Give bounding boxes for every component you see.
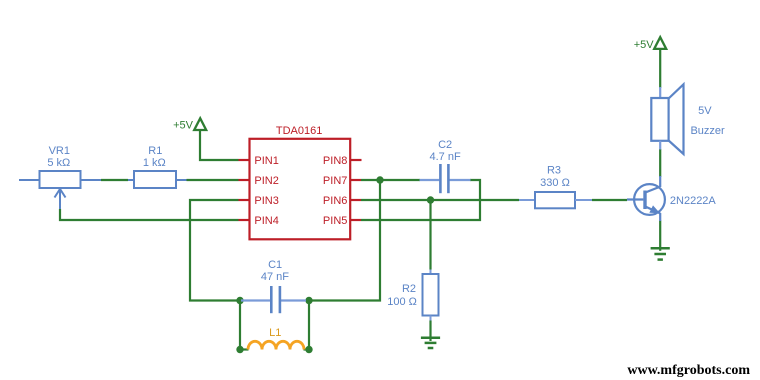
ground under R2 xyxy=(421,338,440,348)
svg-text:R3: R3 xyxy=(547,164,561,176)
svg-text:PIN2: PIN2 xyxy=(254,175,278,187)
svg-text:R2: R2 xyxy=(402,283,416,295)
svg-text:C2: C2 xyxy=(438,139,452,151)
wire C2 right down to PIN5 xyxy=(361,180,480,220)
wire +5V to PIN1 xyxy=(200,131,239,161)
svg-text:5 kΩ: 5 kΩ xyxy=(47,157,70,169)
svg-text:330 Ω: 330 Ω xyxy=(540,177,570,189)
svg-text:PIN8: PIN8 xyxy=(323,155,347,167)
junction C1 right xyxy=(305,297,312,304)
wire R3 to Q1 base xyxy=(592,199,627,201)
pin stubs right xyxy=(350,160,361,220)
wire R1 to PIN2 xyxy=(187,179,239,181)
wire PIN6 junction down to R2 xyxy=(429,200,431,270)
wire C1 left leg down to L1 xyxy=(239,301,241,350)
wire VR1 wiper to PIN4 xyxy=(60,209,239,220)
buzzer LS1 xyxy=(651,84,683,154)
svg-text:4.7 nF: 4.7 nF xyxy=(430,151,461,163)
wire +5V to buzzer xyxy=(659,49,661,88)
wire L1 left lead xyxy=(240,348,249,350)
inductor L1 xyxy=(248,341,304,349)
wire Q1 emitter to ground xyxy=(659,221,661,251)
pin stubs left xyxy=(239,160,250,220)
svg-text:C1: C1 xyxy=(268,259,282,271)
transistor Q1 2N2222A xyxy=(627,176,665,221)
svg-text:+5V: +5V xyxy=(634,39,655,51)
capacitor C1 xyxy=(241,286,306,313)
svg-text:PIN4: PIN4 xyxy=(254,215,278,227)
resistor R3 xyxy=(519,192,592,208)
svg-text:VR1: VR1 xyxy=(49,145,70,157)
wire VR1 to R1 xyxy=(101,179,128,181)
wire R2 to ground xyxy=(429,321,431,342)
potentiometer VR1 xyxy=(19,171,101,209)
svg-text:www.mfgrobots.com: www.mfgrobots.com xyxy=(627,363,750,378)
wire L1 right lead xyxy=(304,348,310,350)
resistor R2 xyxy=(423,270,439,321)
ground under Q1 xyxy=(651,248,670,259)
svg-text:PIN1: PIN1 xyxy=(254,155,278,167)
svg-text:TDA0161: TDA0161 xyxy=(276,125,322,137)
wire C1 right leg down to L1 xyxy=(308,301,310,350)
junction PIN7/C2 xyxy=(376,176,383,183)
wire PIN6 to R3 xyxy=(361,199,519,201)
svg-text:PIN7: PIN7 xyxy=(323,175,347,187)
svg-text:PIN3: PIN3 xyxy=(254,195,278,207)
junction C1 left xyxy=(236,297,243,304)
svg-text:47 nF: 47 nF xyxy=(261,271,289,283)
wire buzzer to Q1 collector xyxy=(659,149,661,177)
svg-text:+5V: +5V xyxy=(173,119,194,131)
svg-text:PIN5: PIN5 xyxy=(323,215,347,227)
svg-text:1 kΩ: 1 kΩ xyxy=(143,157,166,169)
wire PIN7 to C2 left xyxy=(361,179,420,181)
svg-text:PIN6: PIN6 xyxy=(323,195,347,207)
op-amp U1 TDA0161 box xyxy=(250,139,351,240)
capacitor C2 xyxy=(420,164,471,193)
svg-text:R1: R1 xyxy=(148,145,162,157)
svg-text:100 Ω: 100 Ω xyxy=(387,296,417,308)
svg-text:L1: L1 xyxy=(269,327,281,339)
junction L1 right xyxy=(305,346,312,353)
wire PIN3 down-left to C1 xyxy=(190,200,240,301)
svg-text:5V: 5V xyxy=(698,105,712,117)
wire C1 right to PIN7 vertical xyxy=(309,180,380,301)
svg-text:2N2222A: 2N2222A xyxy=(670,195,717,207)
junction PIN6/R2 xyxy=(427,196,434,203)
power +5V symbol left xyxy=(194,118,206,130)
junction L1 left xyxy=(236,346,243,353)
svg-text:Buzzer: Buzzer xyxy=(690,125,725,137)
power +5V symbol right xyxy=(654,37,666,49)
resistor R1 xyxy=(128,171,187,188)
